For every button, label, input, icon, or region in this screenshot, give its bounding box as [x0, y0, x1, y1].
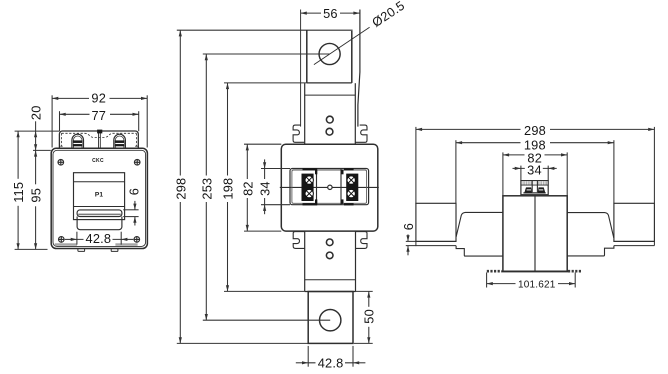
svg-text:6: 6: [401, 223, 416, 230]
svg-text:42.8: 42.8: [86, 231, 112, 246]
svg-text:82: 82: [240, 181, 255, 196]
svg-text:56: 56: [323, 6, 338, 21]
svg-text:298: 298: [173, 178, 188, 200]
svg-text:95: 95: [29, 188, 44, 203]
svg-text:34: 34: [527, 163, 542, 178]
svg-text:92: 92: [91, 91, 106, 106]
svg-text:101.621: 101.621: [518, 280, 556, 291]
svg-text:298: 298: [524, 123, 546, 138]
svg-text:253: 253: [199, 178, 214, 200]
svg-text:Ø20.5: Ø20.5: [369, 0, 407, 30]
svg-text:20: 20: [29, 105, 44, 120]
svg-text:42.8: 42.8: [318, 356, 344, 371]
svg-text:34: 34: [257, 181, 272, 196]
svg-text:115: 115: [11, 182, 26, 203]
svg-text:6: 6: [127, 188, 142, 195]
svg-text:CKC: CKC: [92, 158, 104, 164]
svg-text:198: 198: [221, 178, 236, 200]
svg-text:50: 50: [362, 309, 377, 324]
svg-text:77: 77: [91, 108, 106, 123]
svg-text:P1: P1: [95, 191, 104, 198]
